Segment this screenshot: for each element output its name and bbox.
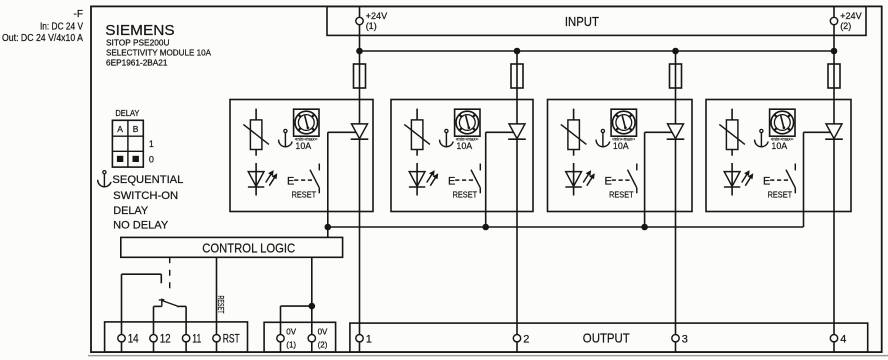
svg-text:Out: DC 24 V/4x10 A: Out: DC 24 V/4x10 A	[2, 33, 83, 44]
svg-text:(2): (2)	[840, 21, 851, 31]
svg-text:0V: 0V	[318, 328, 328, 337]
svg-text:A: A	[117, 124, 123, 134]
svg-text:0V: 0V	[286, 328, 296, 337]
svg-text:+24V: +24V	[840, 11, 862, 21]
svg-text:SITOP PSE200U: SITOP PSE200U	[106, 39, 170, 48]
svg-text:3: 3	[682, 333, 688, 345]
svg-text:+24V: +24V	[366, 11, 388, 21]
svg-text:E: E	[763, 175, 770, 187]
svg-text:B: B	[133, 124, 139, 134]
svg-text:(1): (1)	[286, 340, 296, 349]
svg-text:10A: 10A	[295, 141, 311, 152]
svg-text:DELAY: DELAY	[115, 108, 139, 118]
svg-text:-F: -F	[74, 9, 83, 20]
svg-text:DELAY: DELAY	[113, 205, 149, 217]
svg-text:(1): (1)	[366, 21, 377, 31]
svg-text:11: 11	[192, 333, 201, 345]
svg-text:NO DELAY: NO DELAY	[113, 220, 169, 232]
svg-text:4: 4	[840, 333, 846, 345]
svg-text:INPUT: INPUT	[565, 14, 599, 29]
svg-text:RESET: RESET	[292, 189, 317, 199]
svg-text:12: 12	[160, 333, 171, 345]
svg-text:2: 2	[523, 333, 529, 345]
svg-text:SIEMENS: SIEMENS	[105, 23, 175, 39]
svg-text:RESET: RESET	[453, 189, 478, 199]
svg-text:SWITCH-ON: SWITCH-ON	[113, 190, 178, 202]
svg-text:In: DC 24 V: In: DC 24 V	[40, 22, 83, 33]
svg-text:1: 1	[149, 139, 154, 149]
svg-text:E: E	[448, 175, 455, 187]
svg-text:RST: RST	[223, 333, 240, 345]
svg-text:SELECTIVITY MODULE 10A: SELECTIVITY MODULE 10A	[106, 49, 212, 58]
svg-text:RESET: RESET	[216, 296, 225, 314]
svg-text:CONTROL LOGIC: CONTROL LOGIC	[202, 240, 295, 255]
svg-text:E: E	[605, 175, 612, 187]
svg-text:10A: 10A	[456, 141, 472, 152]
svg-text:1: 1	[366, 333, 372, 345]
svg-text:RESET: RESET	[609, 189, 634, 199]
svg-text:10A: 10A	[771, 141, 787, 152]
svg-text:10A: 10A	[613, 141, 629, 152]
svg-text:(2): (2)	[318, 340, 328, 349]
svg-text:6EP1961-2BA21: 6EP1961-2BA21	[106, 59, 168, 68]
svg-text:E: E	[287, 175, 294, 187]
svg-text:0: 0	[149, 155, 154, 165]
svg-text:SEQUENTIAL: SEQUENTIAL	[112, 174, 183, 186]
svg-text:14: 14	[128, 333, 140, 345]
svg-text:OUTPUT: OUTPUT	[583, 331, 630, 346]
svg-text:RESET: RESET	[768, 189, 793, 199]
